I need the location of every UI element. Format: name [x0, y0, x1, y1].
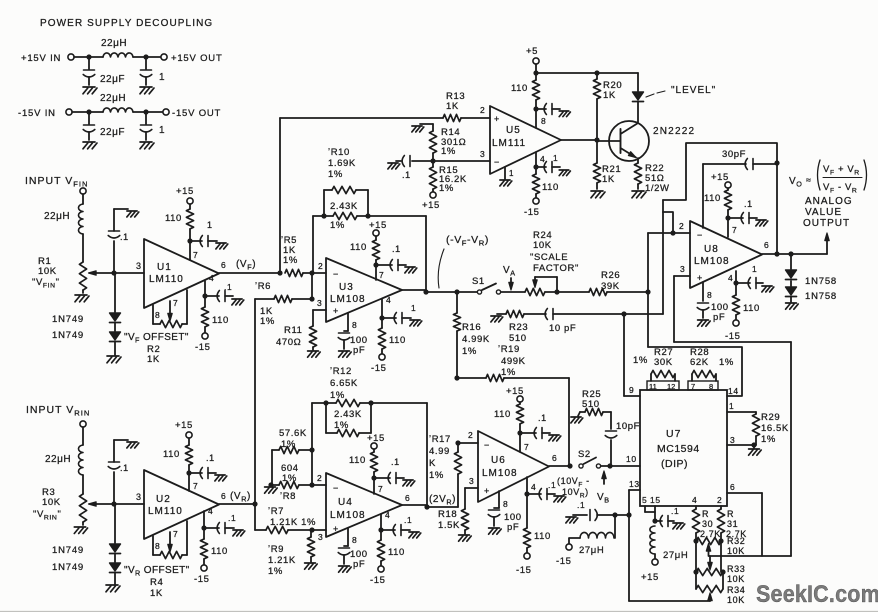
wire +5 rail to diode [597, 73, 638, 91]
ground [83, 87, 97, 94]
zener 1N749 (VR upper) [52, 544, 121, 556]
svg-text:≈: ≈ [806, 175, 812, 185]
node VR to R7 [252, 501, 257, 530]
capacitor 1 (U1 pin7) [190, 220, 217, 247]
U7 pin1 wire [727, 401, 756, 412]
resistor R21 1K [593, 140, 621, 189]
svg-text:.1: .1 [120, 463, 129, 473]
svg-text:110: 110 [165, 213, 182, 224]
svg-text:3: 3 [136, 261, 142, 271]
node VF input junction [111, 270, 116, 275]
ground [489, 528, 502, 534]
node U6 pin4 [524, 491, 529, 496]
svg-text:R4: R4 [150, 577, 163, 588]
wire [86, 109, 163, 114]
ground [233, 530, 245, 536]
node U4 pin2 [309, 450, 326, 488]
svg-text:3: 3 [680, 264, 685, 274]
resistor R19 499K [457, 344, 569, 382]
node U5 pin4 [533, 164, 538, 169]
svg-text:110: 110 [743, 303, 760, 314]
svg-text:U4: U4 [338, 497, 353, 508]
svg-text:10K: 10K [727, 595, 745, 605]
wire U8 pin3 [674, 264, 690, 342]
resistor 110 (U4 pin4 to -15) [377, 530, 405, 566]
+15 supply for U1 [176, 186, 194, 209]
svg-text:1%: 1% [283, 255, 298, 266]
op-amp U2 LM110 [144, 470, 219, 539]
svg-text:+15V IN: +15V IN [21, 53, 61, 64]
wire VR line to R6 [254, 299, 256, 504]
svg-text:.1: .1 [224, 282, 232, 292]
svg-text:8: 8 [352, 320, 357, 330]
capacitor 10pF (lead) [524, 309, 624, 335]
capacitor .1 (U7 pin15) [655, 506, 679, 527]
node U8 pin2 feedback [670, 230, 675, 235]
capacitor 100pF (U3 pin8) [338, 313, 367, 356]
svg-text:5: 5 [642, 495, 647, 505]
resistor 110 (U4 pin7) [349, 452, 378, 478]
resistor 110 (U3 pin7) [350, 240, 380, 265]
svg-text:10K: 10K [727, 574, 745, 584]
ground (R23) [491, 314, 506, 322]
svg-text:1%: 1% [330, 220, 345, 231]
-15V OUT terminal [163, 108, 221, 119]
svg-text:1.5K: 1.5K [438, 520, 460, 531]
svg-text:10: 10 [626, 454, 637, 464]
wire U8 pin2 node from R26 [648, 221, 690, 292]
node output to zeners [788, 251, 793, 269]
switch S1 [472, 276, 501, 294]
inductor 27uH (-15 filter) [569, 515, 615, 556]
node VB [607, 463, 640, 468]
node U6 pin7 [517, 430, 529, 452]
resistor R6 1K [255, 273, 315, 327]
svg-text:1: 1 [553, 153, 558, 163]
svg-text:ANALOG: ANALOG [805, 196, 853, 207]
ground [74, 527, 87, 534]
node R14/R15 [430, 158, 435, 163]
svg-text:1%: 1% [462, 346, 477, 357]
svg-text:22μH: 22μH [101, 38, 127, 49]
svg-text:1%: 1% [441, 146, 456, 157]
svg-text:LM108: LM108 [330, 510, 366, 521]
svg-text:1: 1 [159, 125, 165, 136]
U1 output wire node VF [219, 259, 280, 273]
svg-text:4: 4 [209, 273, 214, 283]
wire U5 pin4 [536, 152, 545, 167]
capacitor .1 (U5 pin3 input) [396, 156, 433, 181]
svg-text:1%: 1% [501, 367, 516, 378]
svg-text:R34: R34 [727, 585, 745, 595]
svg-text:510: 510 [509, 333, 527, 344]
svg-text:R18: R18 [438, 509, 457, 520]
trimmer wiper bus [709, 555, 791, 557]
zener 1N758 (upper) [786, 270, 838, 287]
svg-text:4: 4 [692, 495, 697, 505]
svg-text:4: 4 [540, 154, 545, 164]
node U2 pin7 [186, 470, 198, 491]
+15 terminal (U7) [641, 559, 659, 583]
svg-text:R11: R11 [284, 325, 303, 336]
label -VF-VR node [438, 234, 489, 288]
node U2 pin4 [201, 525, 206, 530]
svg-text:+: + [697, 273, 703, 283]
capacitor .1 (U1 pin4) [205, 282, 233, 302]
wire [82, 194, 84, 204]
svg-text:110: 110 [211, 546, 228, 557]
ground [554, 496, 566, 502]
svg-text:1%: 1% [439, 183, 454, 194]
output arrow [825, 233, 829, 254]
svg-text:4: 4 [728, 273, 733, 283]
svg-text:8: 8 [155, 541, 160, 551]
VB arrow and label [597, 471, 610, 505]
svg-text:110: 110 [511, 83, 528, 94]
wire -15 rail [72, 111, 103, 113]
svg-text:8: 8 [709, 382, 713, 391]
resistor R25 510 [578, 389, 611, 416]
svg-text:1.69K: 1.69K [328, 158, 356, 169]
svg-text:-15V OUT: -15V OUT [172, 108, 221, 119]
node U8 pin4 [733, 280, 738, 285]
resistor R28 62K (pins 7-8) [688, 347, 734, 391]
svg-text:ʼR9: ʼR9 [268, 544, 284, 555]
svg-text:110: 110 [349, 455, 366, 466]
svg-text:−: − [333, 483, 339, 493]
ground [75, 295, 89, 302]
ground [571, 417, 583, 423]
svg-text:110: 110 [350, 242, 367, 253]
capacitor .1 (U7 pin13 node) [573, 500, 615, 521]
resistor 110 (U2 pin4 to -15) [200, 528, 228, 565]
resistor R11 470ohm (U3 pin3) [276, 298, 326, 350]
svg-text:1%: 1% [330, 390, 345, 401]
svg-text:13: 13 [629, 479, 640, 489]
svg-text:VALUE: VALUE [805, 207, 842, 218]
wire U8 pin4 [728, 271, 736, 283]
svg-text:R26: R26 [601, 270, 620, 281]
svg-text:1K: 1K [150, 588, 163, 599]
wire S1 to R24 [501, 291, 525, 293]
svg-text:1%: 1% [719, 357, 734, 368]
bottom rail to R34 wiper [629, 593, 712, 601]
svg-text:4.99K: 4.99K [462, 334, 490, 345]
svg-text:6: 6 [552, 453, 557, 463]
-15 terminal (filter) [556, 544, 572, 567]
svg-text:-15: -15 [370, 575, 386, 586]
node transistor base [594, 137, 599, 142]
label VR OFFSET R4 1K [124, 565, 190, 599]
svg-text:22μF: 22μF [100, 74, 125, 85]
node U6 output [567, 463, 572, 468]
svg-text:6: 6 [730, 482, 735, 492]
svg-text:1%: 1% [260, 316, 275, 327]
LEVEL pointer dashes [646, 91, 665, 97]
node U4 pin7 [371, 475, 383, 494]
svg-text:12: 12 [667, 382, 675, 391]
U4 output wire node 2VR [402, 493, 458, 510]
svg-text:+15: +15 [641, 572, 659, 583]
svg-text:+15: +15 [175, 420, 193, 431]
svg-text:7: 7 [691, 382, 695, 391]
+15 supply for U2 [175, 420, 193, 445]
ground [566, 517, 578, 523]
inductor 27uH (U7 +15) [650, 526, 688, 561]
svg-text:1N749: 1N749 [52, 330, 84, 341]
svg-text:1/2W: 1/2W [645, 183, 670, 194]
capacitor 22uF (+15 rail) [83, 57, 125, 85]
svg-text:1%: 1% [282, 473, 297, 484]
svg-text:3: 3 [136, 492, 142, 502]
potentiometer R1 10K VFIN [32, 256, 114, 293]
svg-text:ʼR7: ʼR7 [268, 506, 284, 517]
node U3 pin4 [379, 315, 384, 320]
ground [559, 170, 570, 176]
feedback wire to output (30pF box) [663, 143, 777, 233]
resistor R14 301ohm [429, 127, 466, 161]
svg-text:(VR): (VR) [230, 491, 251, 504]
inductor 22uH (VR input) [45, 445, 83, 475]
potentiometer R24 10K SCALE FACTOR [525, 230, 579, 296]
svg-text:S2: S2 [578, 449, 591, 460]
ground [403, 480, 415, 486]
ground [591, 191, 605, 198]
node pin15 bypass [652, 518, 657, 523]
resistor R8 604 [268, 450, 312, 502]
watermark [756, 580, 878, 608]
svg-text:1N749: 1N749 [52, 562, 84, 573]
svg-text:8: 8 [352, 535, 357, 545]
capacitor .1 (VR input) [108, 440, 129, 504]
node U4 pin4 [378, 527, 383, 532]
capacitor .1 (U4 pin4) [381, 515, 412, 536]
wire feedback to U3 output [368, 216, 426, 292]
svg-text:−: − [484, 440, 490, 450]
svg-text:3: 3 [318, 532, 323, 542]
node output to 30pF [774, 251, 779, 256]
svg-text:-15: -15 [524, 207, 540, 218]
offset pot R2 1K (U1 pins 8-7) [153, 290, 187, 328]
ground (R14 top) [412, 124, 433, 132]
svg-text:510: 510 [582, 399, 600, 410]
wire R24 to R26 [545, 291, 589, 293]
wire R12 left to U4 pin2 node [312, 403, 326, 450]
wire to U5 pin2 [461, 105, 490, 118]
wire U3 pin4 [382, 295, 391, 318]
node R19 tap [454, 375, 459, 380]
svg-text:1K: 1K [446, 101, 459, 112]
resistor 110 (U8 pin4 to -15) [732, 283, 760, 320]
+15 supply for U3 [369, 220, 387, 240]
capacitor 1 (U5 pin4) [536, 153, 560, 173]
op-amp U3 LM108 [326, 258, 402, 322]
svg-text:ʼR6: ʼR6 [255, 281, 271, 292]
resistor 110 (U6 pin7) [494, 404, 524, 433]
svg-text:10K: 10K [42, 497, 61, 508]
svg-text:R23: R23 [509, 322, 528, 333]
ground [305, 563, 318, 569]
svg-text:OUTPUT: OUTPUT [803, 218, 850, 229]
node U3 pin7 [373, 262, 384, 280]
svg-text:-15: -15 [371, 363, 387, 374]
resistor R27 30K (pins 11-12) [633, 347, 679, 391]
svg-text:110: 110 [534, 531, 551, 542]
resistor R30 2.7K (U7 pin4) [692, 495, 721, 541]
svg-text:R33: R33 [727, 564, 745, 574]
resistor R18 1.5K [438, 476, 478, 534]
svg-text:30K: 30K [654, 357, 673, 368]
node U4 pin3 [309, 527, 326, 542]
svg-text:pF: pF [507, 522, 519, 533]
inductor 22uH (VF input) [44, 204, 83, 234]
svg-text:1: 1 [509, 169, 514, 178]
svg-text:.1: .1 [548, 480, 556, 490]
svg-text:14: 14 [728, 386, 739, 396]
U8 output wire [762, 240, 827, 254]
-15 terminal (U8) [725, 320, 741, 342]
+15 supply for U4 [367, 433, 385, 452]
svg-text:1K: 1K [147, 354, 160, 365]
-15 terminal (U5) [524, 198, 540, 218]
ground [762, 286, 774, 292]
svg-text:-15: -15 [195, 342, 211, 353]
svg-text:8: 8 [503, 499, 508, 509]
svg-text:LM108: LM108 [482, 468, 518, 479]
capacitor .1 (U6 pin7) [520, 413, 550, 439]
svg-text:2.7K: 2.7K [700, 529, 721, 539]
svg-text:110: 110 [388, 547, 405, 558]
svg-text:1N749: 1N749 [52, 545, 84, 556]
resistor R31 2.7K (U7 pin2) [717, 495, 747, 541]
svg-text:1: 1 [729, 401, 734, 411]
svg-text:LM110: LM110 [148, 506, 183, 517]
resistor R22 51ohm 1/2W [634, 163, 669, 194]
svg-text:1K: 1K [603, 90, 616, 101]
resistor R15 16.2K [429, 161, 466, 194]
capacitor 100pF (U8 pin8) [697, 282, 728, 323]
svg-text:110: 110 [389, 335, 406, 346]
bottom edge line [0, 610, 878, 612]
svg-text:.1: .1 [228, 513, 236, 523]
resistor 110 (U6 pin4 to -15) [523, 494, 551, 553]
svg-text:110: 110 [542, 182, 559, 193]
svg-text:U2: U2 [156, 494, 171, 505]
wire R14 node to U5 pin3 [433, 149, 490, 161]
svg-text:30: 30 [702, 519, 713, 529]
svg-text:6: 6 [221, 491, 226, 501]
svg-text:U1: U1 [157, 262, 172, 273]
svg-text:ʼR12: ʼR12 [330, 366, 352, 377]
svg-text:1%: 1% [761, 434, 776, 445]
svg-text:1.21K: 1.21K [268, 555, 296, 566]
svg-text:3: 3 [730, 435, 735, 445]
resistor R7 1.21K [255, 506, 316, 534]
ground [673, 523, 685, 529]
+15V OUT terminal [161, 53, 223, 64]
capacitor 100pF (U6 pin8) [488, 491, 521, 533]
svg-text:4: 4 [386, 295, 391, 305]
-15 terminal (U6) [516, 553, 532, 576]
U7 pin3 wire [727, 435, 757, 448]
svg-text:110: 110 [163, 449, 180, 460]
ground [559, 111, 570, 117]
wire [82, 475, 84, 494]
wire R26 to U8 pin2 node [607, 289, 651, 294]
svg-text:MC1594: MC1594 [657, 443, 700, 455]
svg-text:"SCALE: "SCALE [530, 252, 568, 263]
svg-text:U5: U5 [506, 125, 521, 136]
svg-text:16.5K: 16.5K [761, 423, 789, 434]
multiplier U7 MC1594 (DIP) [640, 390, 727, 506]
resistor R9 1.21K [268, 530, 315, 577]
svg-text:ʼR19: ʼR19 [498, 344, 520, 355]
ground [756, 220, 768, 226]
svg-text:−: − [333, 269, 339, 279]
transistor Q1 2N2222 [597, 121, 695, 163]
svg-text:3: 3 [317, 298, 322, 308]
svg-text:1N758: 1N758 [805, 291, 837, 302]
svg-text:+5: +5 [526, 46, 538, 57]
svg-text:LM111: LM111 [492, 138, 526, 149]
svg-text:1N758: 1N758 [805, 276, 837, 287]
trimmer R32 10K [693, 536, 745, 556]
wire R19 to U6 output [568, 378, 570, 466]
svg-text:22μF: 22μF [100, 127, 125, 138]
output formula VO [789, 160, 867, 195]
capacitor 1 (-15 rail) [140, 112, 165, 140]
-15 terminal [195, 333, 211, 353]
svg-text:3: 3 [469, 476, 474, 486]
svg-text:10K: 10K [38, 266, 57, 277]
svg-text:-15: -15 [516, 565, 532, 576]
resistor R20 1K [593, 70, 622, 140]
op-amp U1 LM110 [144, 239, 219, 308]
svg-text:10K: 10K [533, 240, 552, 251]
svg-text:+15V OUT: +15V OUT [171, 53, 223, 64]
capacitor 10pF (S2) [605, 412, 640, 466]
potentiometer R3 10K VRIN [33, 487, 114, 525]
ground [459, 535, 472, 541]
+15 terminal (R15) [422, 192, 440, 211]
op-amp U6 LM108 [478, 431, 549, 502]
svg-text:LM110: LM110 [149, 274, 184, 285]
resistor R26 39K [589, 270, 620, 296]
ground [405, 267, 417, 273]
capacitor 30pF [703, 149, 777, 228]
wire +15 rail [74, 56, 103, 58]
svg-text:K: K [429, 458, 436, 469]
trimmer R33 10K [693, 541, 745, 584]
resistor R23 510 [506, 310, 528, 344]
wire to zeners [114, 504, 116, 543]
svg-text:(VF): (VF) [236, 259, 256, 272]
resistor 110 (U5 pin8) [511, 73, 540, 109]
svg-text:+15: +15 [367, 433, 385, 444]
svg-text:VF + VR: VF + VR [823, 164, 860, 177]
+15V IN terminal [21, 53, 74, 64]
svg-text:R29: R29 [761, 412, 780, 423]
+15 supply for U8 [711, 172, 731, 190]
svg-text:R: R [702, 509, 709, 519]
svg-text:9: 9 [629, 385, 634, 395]
svg-text:pF: pF [353, 559, 365, 570]
svg-text:.1: .1 [391, 457, 400, 467]
wire to zeners [114, 273, 116, 312]
svg-text:1%: 1% [328, 169, 343, 180]
capacitor .1 (U2 pin4) [204, 513, 236, 534]
svg-text:FACTOR": FACTOR" [533, 263, 579, 274]
